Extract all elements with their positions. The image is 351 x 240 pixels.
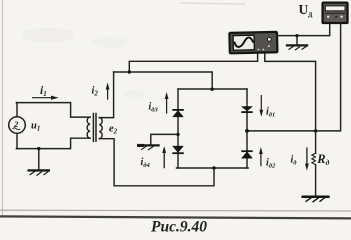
ground G4 (under resistor) — [302, 197, 330, 203]
wire source top riser — [16, 103, 18, 117]
bridge bottom wire — [177, 167, 249, 169]
transformer T1 secondary winding — [99, 118, 102, 139]
transformer T1 primary winding — [87, 117, 90, 138]
current arrow i1 — [32, 96, 59, 100]
oscilloscope P1 — [229, 32, 277, 53]
faint scan smudges — [22, 28, 74, 42]
source u1 AC generator — [9, 117, 26, 134]
wire upper to oscilloscope left leg — [129, 53, 257, 72]
current arrow id1 (down) — [259, 95, 263, 117]
wire secondary top to bridge top (node B) — [114, 72, 213, 89]
page top faint smudge — [180, 3, 245, 4]
ground G3 (near oscilloscope) — [286, 45, 308, 50]
wire secondary bottom to bridge bottom — [99, 139, 214, 186]
transformer core — [92, 114, 94, 142]
current arrow id4 (up) — [162, 146, 166, 168]
bridge top wire — [178, 88, 247, 90]
diode D3 top-left (pointing up) — [172, 110, 184, 117]
diode D2 bottom-right (pointing up) — [241, 151, 252, 158]
wire resistor bottom to ground G4 — [315, 165, 317, 196]
current arrow id2 (up) — [259, 147, 263, 166]
wire ground stub G3 — [296, 36, 298, 45]
current arrow i2 (up) — [106, 83, 110, 100]
wire output: bridge right node to voltmeter leg — [247, 23, 341, 131]
page left border — [2, 0, 4, 215]
current arrow id3 (up) — [165, 92, 169, 114]
wire ground stub G1 — [38, 149, 40, 170]
diode D1 top-right (pointing down) — [241, 107, 252, 113]
bottom rule light — [0, 209, 351, 212]
bridge left side — [177, 89, 179, 168]
ground G1 (under source) — [28, 170, 51, 175]
wire bridge left node to ground G2 — [151, 134, 178, 144]
current arrow id (down, at resistor) — [305, 148, 309, 171]
wire top horizontal to step — [16, 103, 90, 118]
ground G2 (bridge left node) — [137, 144, 160, 150]
svg-text:Рис.9.40: Рис.9.40 — [151, 219, 207, 236]
wire oscilloscope to voltmeter — [277, 23, 330, 35]
bottom rule dark — [0, 216, 351, 218]
wire bottom horizontal to step — [16, 138, 90, 148]
diode D4 bottom-left (pointing down) — [172, 146, 184, 153]
wire secondary top terminal — [99, 72, 113, 118]
voltmeter U (digital) — [323, 3, 348, 23]
bridge right side — [246, 89, 248, 168]
wire source bottom — [16, 133, 18, 148]
wire resistor top — [315, 131, 317, 153]
wire oscilloscope right leg down to output node — [265, 53, 316, 131]
resistor Rd zigzag — [312, 153, 316, 165]
